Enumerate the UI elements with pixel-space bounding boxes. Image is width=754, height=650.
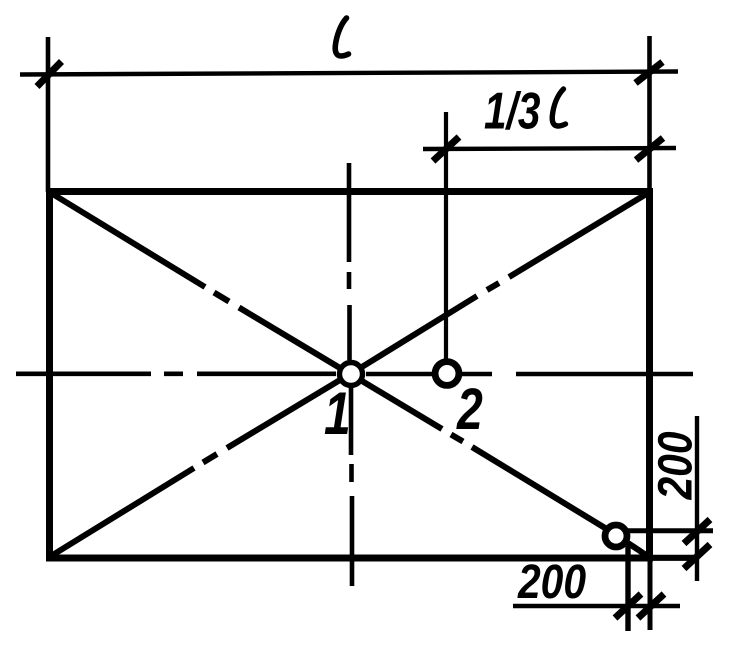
wire left extension line (vertical, above slab) [46, 37, 51, 192]
centre line horizontal (dash-dot) [16, 371, 693, 376]
diagonal from centre to top-right corner (with dash-dot break) [357, 193, 648, 370]
tick at left end of dimension l [37, 62, 62, 87]
svg-text:200: 200 [649, 431, 702, 500]
slab outline rectangle [50, 192, 650, 559]
node 1 circle (centre measurement point) [340, 363, 363, 386]
wire horizontal extension from corner node (to the right) [627, 528, 713, 533]
svg-text:1: 1 [324, 380, 351, 447]
tick on horizontal 200 at right edge [638, 594, 664, 618]
tick at left end of dimension 1/3 l [433, 137, 459, 161]
label l (script ell) [335, 18, 348, 56]
svg-text:1/3: 1/3 [484, 82, 540, 140]
wire horizontal dimension line 200 (bottom) [513, 604, 680, 608]
wire dimension line 1/3 l [423, 148, 676, 149]
wire vertical dimension line 200 (right) [695, 416, 699, 581]
wire vertical extension below corner node [625, 546, 630, 631]
tick on vertical 200 at circle line [684, 520, 710, 544]
wire right edge extension below slab [648, 558, 653, 630]
svg-text:2: 2 [456, 377, 483, 442]
wire right extension line (vertical, above slab) [647, 36, 652, 192]
node 3 circle (corner measurement point) [605, 525, 627, 547]
tick on vertical 200 at bottom edge [684, 545, 710, 569]
wire extension line of node 2 (vertical) [444, 112, 448, 362]
tick at right end of dimension 1/3 l [636, 138, 663, 160]
wire dimension line l [20, 72, 678, 75]
diagonal from top-left corner to centre (with dash-dot break) [51, 193, 345, 371]
centre line vertical (dash-dot) [349, 163, 352, 586]
tick at right end of dimension l [636, 62, 663, 83]
node 2 circle (1/3 l measurement point) [435, 362, 459, 386]
diagonal from centre to bottom-right corner (with dash-dot break) [357, 378, 649, 557]
tick on horizontal 200 at circle line [615, 594, 641, 618]
svg-text:200: 200 [517, 556, 586, 609]
diagonal from bottom-left corner to centre (with dash-dot break) [51, 377, 345, 556]
label l of 1/3 l (script ell) [552, 89, 565, 126]
wire bottom edge extension to the right [650, 555, 694, 561]
